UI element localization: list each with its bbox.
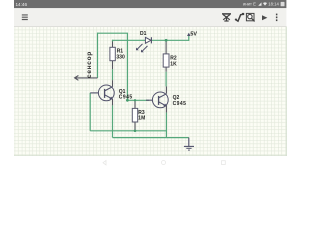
pin: Q2 collector xyxy=(165,86,167,93)
wire: base return horizontal xyxy=(90,130,166,132)
status bar xyxy=(14,0,286,8)
wire: Q1 emitter drop xyxy=(112,105,114,137)
svg-text:C945: C945 xyxy=(173,101,187,107)
wire: ground rail xyxy=(113,137,189,139)
pin: Q2 emitter xyxy=(165,105,167,112)
wire: Q1 base return drop xyxy=(89,93,91,131)
pin: R3 bottom xyxy=(134,122,136,130)
toolbar icon: components tool xyxy=(222,14,231,21)
svg-text:18:14: 18:14 xyxy=(268,2,279,7)
wire: R1 top lead riser xyxy=(112,40,114,42)
power 5V xyxy=(187,33,191,36)
wire: sensor vertical riser xyxy=(97,33,99,78)
toolbar xyxy=(14,8,286,26)
node: junction R3/base return xyxy=(134,130,137,133)
svg-text:1K: 1K xyxy=(170,62,177,68)
wire: R1 bottom to Q1 collector xyxy=(112,69,114,80)
pin: R1 bottom xyxy=(112,61,114,69)
pin: R2 top xyxy=(165,42,167,54)
wire: 5V riser xyxy=(188,34,190,41)
canvas sheet with grid xyxy=(14,27,287,156)
wire: sensor net top (horizontal) xyxy=(98,32,129,34)
svg-text:D1: D1 xyxy=(140,31,147,37)
pin: Q1 collector xyxy=(112,80,114,87)
hamburger menu icon xyxy=(22,15,28,20)
wire: supply rail through D1 xyxy=(113,39,189,41)
wire: R2 bottom to Q2 collector xyxy=(165,72,167,87)
node: junction sensor/Q2 base/R3 xyxy=(126,99,129,102)
svg-text:1M: 1M xyxy=(138,116,145,122)
toolbar icon: zoom fit xyxy=(246,13,254,21)
toolbar icon: overflow menu xyxy=(276,14,278,22)
resistor R3 xyxy=(132,108,137,122)
transistor Q2 xyxy=(146,92,168,108)
pin: R3 top xyxy=(134,101,136,109)
nav back hint xyxy=(103,161,106,165)
wire: Q2 emitter drop xyxy=(165,113,167,138)
resistor R1 xyxy=(110,47,115,60)
node: junction supply/R2 xyxy=(165,39,168,42)
svg-text:C945: C945 xyxy=(119,95,133,101)
pin: Q1 emitter xyxy=(112,99,114,106)
pin: R2 bottom xyxy=(165,67,167,72)
wire: sensor net vertical drop to Q2 base net xyxy=(126,33,128,101)
diode D1 (LED) xyxy=(136,37,151,52)
svg-text:инит E: инит E xyxy=(243,2,256,7)
resistor R2 xyxy=(163,54,169,67)
toolbar icon: play / run xyxy=(262,15,267,20)
ground xyxy=(184,138,194,151)
nav home hint xyxy=(162,161,166,165)
toolbar icon: wire tool xyxy=(235,13,244,21)
wire: Q2 base net horizontal xyxy=(127,99,149,101)
transistor Q1 xyxy=(90,85,114,101)
pin: R1 top xyxy=(112,42,114,48)
svg-text:14:46: 14:46 xyxy=(16,2,28,7)
svg-text:330: 330 xyxy=(116,54,125,60)
node: junction R3 top xyxy=(134,99,136,101)
nav recents hint xyxy=(222,161,226,165)
sensor input pin xyxy=(75,76,98,81)
svg-text:5V: 5V xyxy=(190,32,197,38)
svg-text:сенсор: сенсор xyxy=(86,51,93,78)
